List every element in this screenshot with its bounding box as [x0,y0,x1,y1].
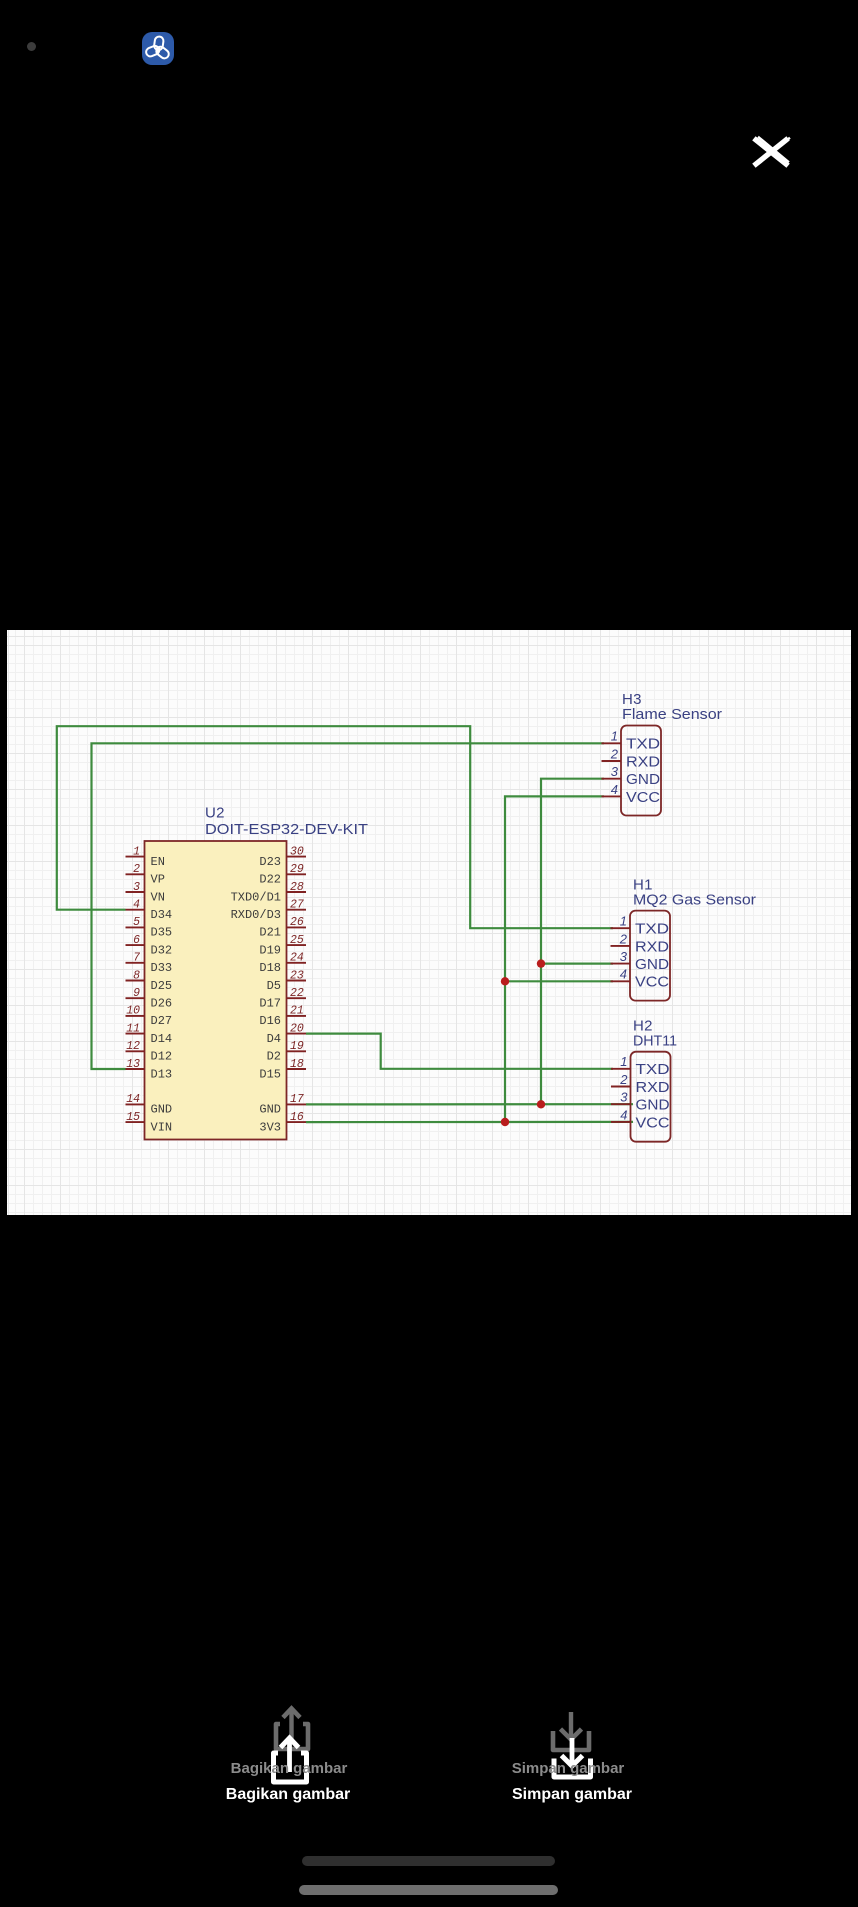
U2 pin 17 GND [259,1093,306,1117]
U2 pin 22 D17 [259,987,306,1011]
U2 pin 24 D18 [259,952,306,976]
svg-text:13: 13 [126,1058,140,1071]
svg-text:1: 1 [620,1054,627,1069]
svg-text:11: 11 [126,1022,140,1035]
svg-text:1: 1 [133,845,140,858]
ghost label Bagikan gambar [231,1760,348,1777]
connector H3 body [621,726,661,816]
svg-text:VCC: VCC [626,790,660,806]
svg-text:RXD: RXD [636,1080,670,1096]
U2 pin 3 VN [126,881,165,905]
svg-text:20: 20 [290,1022,304,1035]
svg-text:21: 21 [290,1005,304,1018]
svg-text:14: 14 [126,1093,140,1106]
svg-text:VIN: VIN [151,1120,173,1134]
wire U2 3V3 to H2 VCC [306,1121,633,1123]
svg-text:10: 10 [126,1005,140,1018]
svg-text:26: 26 [290,916,304,929]
U2 pin 8 D25 [126,969,173,993]
home indicator bar [299,1885,558,1895]
U2 pin 5 D35 [126,916,173,940]
svg-text:24: 24 [290,952,304,965]
save icon ghost [548,1706,594,1756]
svg-text:17: 17 [290,1093,304,1106]
svg-text:4: 4 [133,899,140,912]
svg-text:15: 15 [126,1111,140,1124]
U2 pin 14 GND [126,1093,173,1117]
svg-text:VN: VN [151,890,165,904]
svg-text:D27: D27 [151,1014,173,1028]
junction H1 GND [537,959,545,967]
U2 pin 28 TXD0/D1 [231,881,306,905]
junction H2 GND [537,1100,545,1108]
svg-text:D5: D5 [267,979,281,993]
svg-text:29: 29 [290,863,304,876]
svg-text:D16: D16 [259,1014,281,1028]
camera punch hole dot [27,42,36,51]
U2 pin 7 D33 [126,952,173,976]
ghost label Simpan gambar [512,1760,625,1777]
svg-text:VCC: VCC [635,975,669,991]
label Bagikan gambar [226,1786,350,1804]
U2 pin 29 D22 [259,863,306,887]
svg-text:D12: D12 [151,1050,173,1064]
svg-text:D14: D14 [151,1032,173,1046]
U2 pin 12 D12 [126,1040,173,1064]
save icon solid [549,1732,595,1782]
U2 pin 26 D21 [259,916,306,940]
svg-text:D19: D19 [259,943,281,957]
H3 pin 1 TXD [602,729,661,753]
svg-text:7: 7 [133,952,140,965]
svg-text:6: 6 [133,934,140,947]
svg-text:5: 5 [133,916,140,929]
drag handle bar [302,1856,555,1866]
svg-text:2: 2 [619,931,628,946]
svg-text:D2: D2 [267,1050,281,1064]
svg-text:16: 16 [290,1111,304,1124]
svg-text:D4: D4 [267,1032,281,1046]
svg-text:TXD: TXD [626,737,660,753]
svg-text:3: 3 [620,1090,628,1105]
svg-text:D34: D34 [151,908,173,922]
H1 pin 2 RXD [611,931,670,955]
svg-text:4: 4 [620,1107,627,1122]
U2 pin 11 D14 [126,1022,173,1046]
share icon solid [266,1731,312,1787]
wire GND branch to H1 GND [541,962,613,964]
svg-text:VCC: VCC [636,1115,670,1131]
H2 pin 1 TXD [611,1054,670,1078]
svg-text:MQ2 Gas Sensor: MQ2 Gas Sensor [633,892,756,909]
wire U2 GND17 to H2 GND [306,1103,633,1105]
H2 pin 4 VCC [611,1107,670,1131]
U2 pin 21 D16 [259,1005,306,1028]
U2 pin 1 EN [126,845,165,869]
svg-text:27: 27 [290,899,304,912]
svg-text:2: 2 [133,863,140,876]
svg-text:22: 22 [290,987,304,1000]
svg-text:D21: D21 [259,926,281,940]
connector H1 body [630,911,670,1001]
wire VCC branch to H1 VCC [505,980,613,982]
connector H2 body [631,1052,671,1142]
svg-text:D22: D22 [259,873,281,887]
svg-text:3V3: 3V3 [259,1120,281,1134]
svg-text:3: 3 [620,949,628,964]
svg-text:U2: U2 [205,805,225,822]
H1 pin 3 GND [611,949,670,973]
svg-text:GND: GND [151,1103,173,1117]
H3 pin 4 VCC [602,782,661,806]
svg-text:25: 25 [290,934,304,947]
svg-text:D26: D26 [151,997,173,1011]
U2 pin 10 D27 [126,1005,173,1028]
U2 pin 15 VIN [126,1111,173,1135]
share icon ghost [268,1702,314,1758]
svg-text:19: 19 [290,1040,304,1053]
svg-text:4: 4 [620,967,627,982]
U2 pin 13 D13 [126,1058,173,1082]
app icon (blue squircle with propeller) [142,32,174,65]
svg-text:GND: GND [636,1098,670,1114]
svg-text:12: 12 [126,1040,140,1053]
label Simpan gambar [512,1786,632,1804]
U2 pin 6 D32 [126,934,173,958]
U2 pin 23 D5 [267,969,306,993]
H2 pin 3 GND [611,1090,670,1114]
svg-text:DHT11: DHT11 [633,1033,677,1050]
U2 pin 18 D15 [259,1058,306,1082]
wire net D13 to H3 TXD [92,743,605,1069]
U2 pin 9 D26 [126,987,173,1011]
op-amp U2 body DOIT-ESP32-DEV-KIT [145,841,287,1140]
svg-text:VP: VP [151,873,165,887]
svg-text:D33: D33 [151,961,173,975]
svg-text:D25: D25 [151,979,173,993]
svg-text:30: 30 [290,845,304,858]
svg-text:3: 3 [133,881,140,894]
svg-text:D17: D17 [259,997,281,1011]
svg-text:RXD: RXD [635,939,669,955]
U2 pin 27 RXD0/D3 [231,899,306,923]
svg-text:2: 2 [610,746,619,761]
svg-text:23: 23 [290,969,304,982]
svg-text:4: 4 [611,782,618,797]
U2 pin 4 D34 [126,899,173,923]
svg-text:D35: D35 [151,926,173,940]
junction H2 VCC [501,1118,509,1126]
svg-text:TXD: TXD [635,922,669,938]
U2 pin 2 VP [126,863,165,887]
schematic image area [7,630,851,1215]
svg-text:1: 1 [620,914,627,929]
svg-text:3: 3 [611,764,619,779]
U2 pin 19 D2 [267,1040,306,1064]
wire U2 D4 to H2 TXD [306,1034,613,1069]
junction H1 VCC [501,977,509,985]
svg-text:D13: D13 [151,1067,173,1081]
svg-text:D32: D32 [151,943,173,957]
H3 pin 3 GND [602,764,661,788]
svg-text:2: 2 [619,1072,628,1087]
svg-text:GND: GND [259,1103,281,1117]
H1 pin 1 TXD [611,914,670,938]
H2 pin 2 RXD [611,1072,670,1096]
svg-text:D18: D18 [259,961,281,975]
svg-text:28: 28 [290,881,304,894]
svg-text:RXD: RXD [626,754,660,770]
svg-text:TXD: TXD [636,1062,670,1078]
svg-text:D15: D15 [259,1067,281,1081]
wire net D34 to H1 TXD [57,726,613,928]
svg-text:1: 1 [611,729,618,744]
svg-text:18: 18 [290,1058,304,1071]
U2 pin 25 D19 [259,934,306,958]
wire GND vertical H3 GND to H2 GND [541,779,604,1105]
svg-text:D23: D23 [259,855,281,869]
svg-text:GND: GND [626,772,660,788]
H3 pin 2 RXD [602,746,661,770]
svg-text:RXD0/D3: RXD0/D3 [231,908,281,922]
U2 pin 16 3V3 [259,1111,306,1135]
close (X) button [750,135,792,169]
svg-text:Flame Sensor: Flame Sensor [622,706,722,723]
svg-text:EN: EN [151,855,165,869]
svg-text:TXD0/D1: TXD0/D1 [231,890,281,904]
svg-text:8: 8 [133,969,140,982]
H1 pin 4 VCC [611,967,670,991]
svg-text:GND: GND [635,957,669,973]
svg-text:DOIT-ESP32-DEV-KIT: DOIT-ESP32-DEV-KIT [205,821,368,838]
U2 pin 20 D4 [267,1022,306,1046]
wire VCC vertical H3 VCC to H2 VCC [505,796,604,1122]
svg-text:9: 9 [133,987,140,1000]
U2 pin 30 D23 [259,845,306,869]
